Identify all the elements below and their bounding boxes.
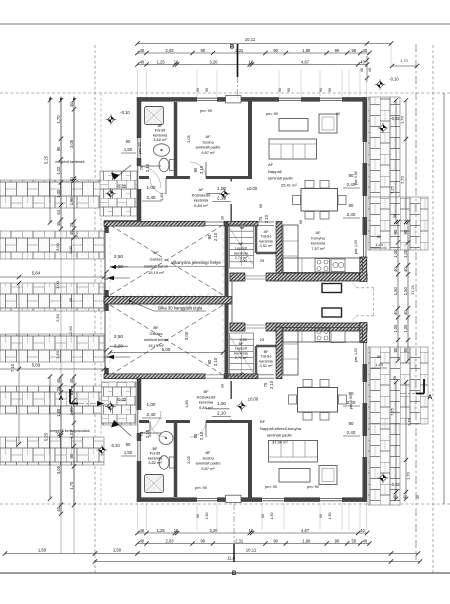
sofa A bbox=[269, 139, 317, 159]
washbasin A bbox=[154, 144, 170, 156]
walkway door label A bbox=[371, 234, 387, 248]
level marker -0,10 top-left bbox=[106, 110, 131, 125]
room label kitchen A bbox=[311, 230, 326, 251]
svg-text:90: 90 bbox=[273, 48, 278, 53]
svg-text:90: 90 bbox=[278, 88, 282, 92]
svg-text:10: 10 bbox=[69, 177, 74, 182]
level marker -0,02 walkway bottom bbox=[378, 473, 401, 487]
wall bathroom A bottom with door bbox=[139, 176, 177, 179]
svg-text:40: 40 bbox=[69, 378, 74, 383]
svg-text:1,00: 1,00 bbox=[56, 189, 61, 198]
svg-text:1,70: 1,70 bbox=[69, 481, 74, 490]
svg-text:10: 10 bbox=[249, 59, 254, 64]
svg-text:5,64: 5,64 bbox=[32, 271, 41, 276]
window dim right B1 bbox=[343, 391, 360, 406]
svg-text:90: 90 bbox=[349, 203, 354, 208]
svg-text:1,90: 1,90 bbox=[239, 337, 248, 342]
svg-text:90: 90 bbox=[335, 48, 340, 53]
svg-text:7,25: 7,25 bbox=[390, 407, 395, 416]
storage B door gap bbox=[258, 375, 274, 378]
svg-text:AF: AF bbox=[239, 242, 245, 246]
storage A door gap bbox=[258, 222, 274, 225]
room label storage A bbox=[259, 230, 273, 248]
svg-text:2,40: 2,40 bbox=[147, 412, 156, 417]
svg-text:1,00: 1,00 bbox=[217, 186, 226, 191]
svg-text:1,90: 1,90 bbox=[239, 258, 248, 263]
svg-text:40: 40 bbox=[140, 528, 145, 533]
wall bathroom B top with door bbox=[139, 420, 177, 423]
svg-text:AF: AF bbox=[268, 162, 274, 167]
svg-text:3,05: 3,05 bbox=[69, 139, 74, 148]
dimension 5,64 strip bbox=[0, 271, 106, 280]
chimney break bottom wall bbox=[226, 495, 242, 502]
note party wall silka bbox=[129, 300, 206, 311]
section mark B bottom bbox=[232, 504, 237, 577]
svg-text:90: 90 bbox=[259, 204, 263, 208]
section mark B top bbox=[230, 44, 238, 98]
svg-text:1,00: 1,00 bbox=[393, 324, 398, 333]
svg-text:1,00: 1,00 bbox=[147, 402, 156, 407]
right walkway top dim bbox=[390, 59, 419, 68]
svg-text:96: 96 bbox=[393, 376, 397, 380]
svg-text:pm: 90: pm: 90 bbox=[266, 111, 279, 116]
svg-text:1,50: 1,50 bbox=[38, 548, 47, 553]
unit B north wall hatched bbox=[230, 323, 367, 331]
svg-text:90: 90 bbox=[335, 538, 340, 543]
entrance arrow terrace B bbox=[111, 420, 131, 436]
door arc bathroom A bbox=[150, 178, 166, 194]
svg-text:40: 40 bbox=[363, 538, 368, 543]
svg-text:1,00: 1,00 bbox=[393, 249, 398, 258]
door label garage B bbox=[207, 357, 218, 366]
dining table B bbox=[298, 388, 338, 413]
svg-text:40: 40 bbox=[140, 538, 145, 543]
svg-text:90: 90 bbox=[349, 421, 354, 426]
svg-text:-0,02: -0,02 bbox=[390, 482, 400, 487]
svg-text:1,00: 1,00 bbox=[55, 280, 60, 289]
witness lines top bbox=[137, 70, 366, 97]
svg-text:2,31: 2,31 bbox=[235, 48, 244, 53]
svg-text:2,10: 2,10 bbox=[199, 431, 204, 440]
hall door A size bbox=[212, 186, 231, 202]
svg-text:pm: 90: pm: 90 bbox=[195, 485, 208, 490]
setback dashed line bottom bbox=[0, 503, 450, 505]
note electric meter bbox=[110, 260, 228, 269]
level marker -0,10 top-right bbox=[375, 77, 400, 90]
room label storage B bbox=[259, 350, 273, 368]
garage wing wall bottom step bbox=[104, 374, 141, 379]
wall hall A bottom / garage A top hatched bbox=[104, 221, 205, 226]
staircase unit A bbox=[230, 225, 254, 268]
svg-text:2,70: 2,70 bbox=[407, 417, 412, 426]
porch pier top bbox=[322, 284, 342, 293]
bottom wall tiny window labels bbox=[196, 513, 332, 520]
svg-text:4,67: 4,67 bbox=[301, 528, 310, 533]
dimension left 5,25 top bbox=[44, 98, 53, 225]
terrace paving top unit bbox=[100, 171, 137, 216]
svg-text:25,41 m²: 25,41 m² bbox=[281, 182, 297, 187]
svg-text:BF: BF bbox=[260, 419, 266, 424]
toilet B bbox=[170, 457, 175, 468]
wall storage A divider bbox=[256, 225, 278, 253]
section mark A right bbox=[400, 379, 433, 401]
svg-text:40: 40 bbox=[69, 230, 74, 235]
svg-text:10: 10 bbox=[174, 59, 179, 64]
dimension chain bottom row 2 bbox=[135, 538, 371, 545]
svg-text:75: 75 bbox=[139, 431, 144, 436]
paved driveway strip 4 bbox=[0, 334, 104, 362]
svg-text:1,02: 1,02 bbox=[56, 166, 61, 175]
svg-text:-0,02: -0,02 bbox=[117, 397, 127, 402]
door label storage B bbox=[263, 380, 274, 389]
svg-text:0,91 m²: 0,91 m² bbox=[260, 364, 274, 368]
svg-text:0,91 m²: 0,91 m² bbox=[260, 244, 274, 248]
svg-text:90: 90 bbox=[200, 538, 205, 543]
living B porch corner wall hatched bbox=[360, 323, 367, 343]
dimension chain top row 1 bbox=[135, 48, 371, 55]
stove A bbox=[315, 259, 330, 273]
left chain top arrows bbox=[49, 96, 75, 100]
svg-text:5,00: 5,00 bbox=[162, 347, 171, 352]
washbasin B bbox=[159, 432, 173, 445]
fence dashed line right bbox=[432, 45, 434, 573]
svg-text:villanyóra jelenlegi helye: villanyóra jelenlegi helye bbox=[171, 260, 221, 265]
svg-text:1,43: 1,43 bbox=[375, 362, 383, 367]
dimension chain left lower inner bbox=[56, 374, 63, 516]
svg-text:Nappali: Nappali bbox=[268, 169, 282, 174]
svg-text:1,70: 1,70 bbox=[406, 471, 411, 480]
svg-text:2,70: 2,70 bbox=[400, 175, 405, 184]
door label storage A bbox=[258, 214, 269, 223]
svg-text:3,05: 3,05 bbox=[186, 134, 191, 143]
level marker +-0,00 porch A bbox=[219, 186, 258, 199]
level marker -0,02 terrace A bbox=[105, 184, 127, 199]
svg-text:1,50: 1,50 bbox=[124, 450, 133, 455]
svg-text:1,25: 1,25 bbox=[157, 528, 166, 533]
hall door B size bbox=[212, 401, 231, 417]
svg-text:1,00: 1,00 bbox=[147, 185, 156, 190]
svg-text:1,50: 1,50 bbox=[328, 513, 332, 520]
paved walkway right lower-wide bbox=[368, 347, 428, 424]
exterior wall top (with windows) bbox=[137, 98, 367, 100]
exterior wall left lower (terrace door + window) bbox=[138, 377, 140, 502]
window dim right A2 bbox=[343, 203, 360, 218]
garage B 40 tick bbox=[104, 348, 109, 359]
svg-text:40: 40 bbox=[56, 221, 61, 226]
garage A door gap bbox=[205, 222, 224, 225]
svg-text:pm: 90: pm: 90 bbox=[265, 484, 278, 489]
svg-text:90: 90 bbox=[207, 234, 212, 239]
unit A south wall hatched bbox=[230, 273, 367, 281]
dimension right lower bbox=[404, 380, 412, 501]
wall stairs A top hatched bbox=[224, 221, 258, 226]
svg-text:7,10: 7,10 bbox=[10, 363, 15, 372]
paved walkway right lower bbox=[368, 424, 400, 505]
stair B dims bbox=[239, 337, 265, 342]
wall room A / living A bbox=[248, 101, 252, 179]
svg-text:1,43: 1,43 bbox=[375, 242, 383, 247]
entrance arrow terrace A bbox=[111, 165, 131, 180]
svg-text:simított beton: simított beton bbox=[144, 263, 168, 268]
svg-text:40: 40 bbox=[393, 310, 398, 315]
dimension chain left lower outer bbox=[69, 374, 76, 507]
room label stairs B bbox=[234, 342, 248, 360]
walkway door label B bbox=[371, 354, 387, 368]
svg-text:-0,10: -0,10 bbox=[120, 110, 130, 115]
svg-text:90: 90 bbox=[287, 88, 291, 92]
sofa B bbox=[269, 441, 318, 463]
svg-text:3,20: 3,20 bbox=[209, 59, 218, 64]
svg-text:pm: 90: pm: 90 bbox=[307, 484, 320, 489]
svg-text:3,05: 3,05 bbox=[186, 455, 191, 464]
svg-text:1,80: 1,80 bbox=[159, 192, 164, 201]
kitchen sink B bbox=[331, 331, 345, 343]
svg-text:A: A bbox=[428, 394, 433, 401]
svg-text:meglévő kerítések: meglévő kerítések bbox=[55, 160, 84, 164]
svg-text:pm: 0,90: pm: 0,90 bbox=[349, 395, 353, 409]
svg-text:30: 30 bbox=[56, 386, 61, 391]
dimension chain right porch inner bbox=[393, 220, 400, 363]
level marker -0,02 terrace B bbox=[105, 397, 127, 412]
svg-text:9,87 m²: 9,87 m² bbox=[201, 150, 215, 155]
level marker +-0,00 porch B bbox=[236, 397, 259, 412]
svg-text:2,10: 2,10 bbox=[199, 165, 204, 174]
section mark A left bbox=[59, 389, 104, 406]
svg-text:90: 90 bbox=[205, 88, 209, 92]
svg-text:3,00: 3,00 bbox=[184, 331, 189, 340]
hall B partition with door bbox=[206, 381, 231, 422]
room label room A bbox=[196, 134, 221, 155]
wall bathroom A right bbox=[174, 102, 178, 176]
garage A 40 tick bbox=[104, 270, 109, 281]
svg-text:90: 90 bbox=[393, 347, 398, 352]
svg-text:7,25: 7,25 bbox=[390, 185, 395, 194]
svg-text:30: 30 bbox=[221, 384, 225, 388]
door label room B bbox=[193, 431, 204, 440]
svg-text:AF: AF bbox=[315, 230, 321, 235]
door arc terrace A bbox=[139, 166, 161, 188]
svg-text:-0,10: -0,10 bbox=[110, 443, 120, 448]
svg-text:40: 40 bbox=[56, 506, 61, 511]
svg-text:Közlekedő: Közlekedő bbox=[197, 394, 216, 399]
tv cabinet B bbox=[319, 466, 337, 485]
wall storage B divider bbox=[256, 346, 278, 375]
column dot stairs B bbox=[240, 372, 245, 377]
svg-text:kerámia: kerámia bbox=[259, 239, 273, 243]
svg-text:40: 40 bbox=[363, 48, 368, 53]
svg-text:40: 40 bbox=[393, 267, 398, 272]
dimension right 7,25 top bbox=[390, 98, 399, 224]
dimension chain left upper outer bbox=[69, 98, 76, 240]
svg-text:1,80: 1,80 bbox=[69, 197, 74, 206]
svg-text:2,50: 2,50 bbox=[114, 334, 123, 339]
sideboard A bbox=[279, 119, 308, 132]
unit B entrance door gap bbox=[245, 322, 266, 332]
kerb dashed line x101 bbox=[100, 93, 102, 504]
paved driveway strip 3 bbox=[0, 283, 104, 311]
plot line right bbox=[443, 93, 445, 504]
svg-text:kerámia: kerámia bbox=[311, 241, 326, 246]
svg-text:3,82 m²: 3,82 m² bbox=[153, 137, 167, 142]
svg-text:90: 90 bbox=[207, 359, 212, 364]
svg-text:Garázs: Garázs bbox=[150, 331, 163, 336]
svg-text:1,80: 1,80 bbox=[184, 399, 189, 408]
svg-text:2,50: 2,50 bbox=[55, 313, 60, 322]
room label living A bbox=[268, 162, 297, 187]
window dim right B2 bbox=[343, 421, 360, 436]
svg-text:90: 90 bbox=[126, 139, 131, 144]
svg-text:1,00: 1,00 bbox=[403, 324, 408, 333]
room label bathroom B bbox=[148, 446, 163, 465]
wall storage B / kitchen B hatched bbox=[276, 327, 282, 379]
svg-text:laminált padló: laminált padló bbox=[267, 433, 292, 438]
svg-text:pm: 0,90: pm: 0,90 bbox=[354, 171, 358, 185]
svg-text:30: 30 bbox=[69, 222, 74, 227]
wall hall B top / garage B bottom hatched bbox=[104, 374, 205, 379]
garage door B size bbox=[107, 334, 130, 359]
svg-text:75: 75 bbox=[139, 165, 144, 170]
svg-text:10,11: 10,11 bbox=[245, 37, 256, 42]
svg-text:kerámia: kerámia bbox=[194, 198, 209, 203]
svg-text:40: 40 bbox=[360, 528, 365, 533]
svg-text:laminált padló: laminált padló bbox=[268, 176, 293, 181]
svg-text:2,31: 2,31 bbox=[235, 538, 244, 543]
room label bathroom A bbox=[153, 123, 168, 142]
svg-text:kerámia: kerámia bbox=[259, 359, 273, 363]
porch roof overhang dashes bbox=[352, 283, 374, 321]
svg-text:BF: BF bbox=[153, 325, 159, 330]
svg-text:2,60: 2,60 bbox=[55, 350, 60, 359]
staircase unit B bbox=[230, 333, 254, 376]
terrace door B size bbox=[142, 402, 162, 418]
svg-text:1,00: 1,00 bbox=[403, 249, 408, 258]
room label garage B bbox=[144, 325, 168, 348]
svg-text:Lépcső: Lépcső bbox=[235, 247, 247, 251]
level marker -0,02 walkway top bbox=[378, 116, 401, 133]
svg-text:±0,00: ±0,00 bbox=[248, 397, 259, 402]
svg-text:75: 75 bbox=[263, 382, 268, 387]
svg-text:2,40: 2,40 bbox=[347, 212, 356, 217]
svg-text:90: 90 bbox=[403, 229, 408, 234]
svg-text:1,50: 1,50 bbox=[270, 513, 274, 520]
svg-text:3,00: 3,00 bbox=[55, 242, 60, 251]
exterior wall bottom (with windows) bbox=[137, 498, 367, 500]
dimension chain left upper inner bbox=[56, 98, 63, 231]
top wall tiny window labels bbox=[196, 88, 332, 92]
svg-text:BF: BF bbox=[264, 350, 270, 354]
dimension chain right porch outer bbox=[403, 220, 410, 363]
wall storage A / kitchen A hatched bbox=[276, 221, 282, 273]
svg-text:58: 58 bbox=[351, 538, 356, 543]
dining chairs A bbox=[293, 181, 347, 220]
window dim left B bbox=[121, 442, 136, 456]
exterior wall right upper (windows) bbox=[364, 97, 366, 281]
dimension 5,69 strip bbox=[0, 363, 106, 372]
dimension chain top row 2 bbox=[135, 59, 369, 66]
svg-text:90: 90 bbox=[200, 48, 205, 53]
door arc room A bbox=[190, 162, 206, 178]
wall stairs B bottom hatched bbox=[224, 374, 258, 379]
svg-text:Garázs: Garázs bbox=[150, 257, 163, 262]
paved driveway strip 1 bbox=[0, 180, 104, 208]
svg-text:1,80: 1,80 bbox=[56, 408, 61, 417]
svg-text:1,50: 1,50 bbox=[393, 287, 398, 296]
exterior wall left upper (window + terrace door) bbox=[138, 97, 140, 222]
svg-text:1,80: 1,80 bbox=[302, 48, 311, 53]
svg-text:kerámia: kerámia bbox=[234, 351, 248, 355]
kitchen A porch corner wall hatched bbox=[360, 257, 367, 282]
svg-text:Tároló: Tároló bbox=[261, 235, 272, 239]
svg-text:90: 90 bbox=[196, 88, 200, 92]
svg-text:B: B bbox=[230, 45, 235, 51]
svg-text:10: 10 bbox=[249, 528, 254, 533]
svg-text:2,10: 2,10 bbox=[213, 357, 218, 366]
svg-text:90: 90 bbox=[319, 514, 323, 518]
setback dashed line top bbox=[0, 92, 450, 94]
svg-text:10: 10 bbox=[174, 528, 179, 533]
svg-text:40: 40 bbox=[416, 495, 420, 499]
svg-text:A: A bbox=[59, 395, 64, 402]
svg-text:2,10: 2,10 bbox=[213, 232, 218, 241]
stove B bbox=[315, 328, 330, 342]
svg-text:4,67: 4,67 bbox=[301, 59, 310, 64]
room label stairs A bbox=[234, 242, 248, 260]
kitchen sink A bbox=[331, 259, 345, 272]
terrace paving bottom unit bbox=[102, 382, 137, 425]
paved driveway strip 2 bbox=[0, 231, 104, 259]
svg-text:pm: 1,00: pm: 1,00 bbox=[354, 348, 358, 362]
svg-text:90: 90 bbox=[193, 167, 198, 172]
dimension bottom 1,50 and 10,11 bbox=[3, 548, 420, 556]
svg-text:pm: 1,00: pm: 1,00 bbox=[354, 240, 358, 254]
dimension left 5,25 bottom bbox=[44, 374, 53, 501]
paved driveway strip 5 bbox=[0, 386, 104, 414]
right bottom 40 labels bbox=[393, 490, 420, 499]
dimension right upper bbox=[400, 98, 409, 224]
svg-text:1,00: 1,00 bbox=[69, 407, 74, 416]
svg-text:1,50: 1,50 bbox=[124, 147, 133, 152]
right 96 labels bbox=[393, 214, 397, 380]
svg-text:40: 40 bbox=[140, 59, 145, 64]
witness lines bottom bbox=[137, 503, 366, 530]
window dim left A bbox=[121, 139, 136, 153]
svg-text:90: 90 bbox=[393, 229, 398, 234]
svg-text:5,69: 5,69 bbox=[32, 363, 41, 368]
kitchen counter B bbox=[283, 328, 363, 376]
svg-text:90: 90 bbox=[126, 442, 131, 447]
shower A bbox=[145, 107, 164, 125]
hall A partition with door bbox=[206, 179, 231, 222]
dining table A bbox=[301, 189, 338, 212]
svg-text:40: 40 bbox=[403, 310, 408, 315]
svg-text:Konyha: Konyha bbox=[311, 235, 325, 240]
svg-text:2,10: 2,10 bbox=[217, 411, 226, 416]
svg-text:10,11: 10,11 bbox=[246, 548, 257, 553]
garage wing wall top step bbox=[104, 220, 141, 225]
svg-text:40: 40 bbox=[69, 102, 74, 107]
fence dashed line left bbox=[94, 45, 96, 573]
door arc room B bbox=[190, 421, 206, 437]
wall room A bottom with door bbox=[139, 177, 252, 178]
svg-text:40: 40 bbox=[360, 68, 364, 72]
svg-text:75: 75 bbox=[258, 216, 263, 221]
svg-text:2,10: 2,10 bbox=[145, 163, 150, 172]
svg-text:90: 90 bbox=[403, 347, 408, 352]
svg-text:30: 30 bbox=[68, 297, 73, 302]
svg-text:40: 40 bbox=[368, 68, 372, 72]
tv cabinet A bbox=[319, 114, 337, 133]
svg-text:Nappali-étkező-konyha: Nappali-étkező-konyha bbox=[260, 426, 302, 431]
